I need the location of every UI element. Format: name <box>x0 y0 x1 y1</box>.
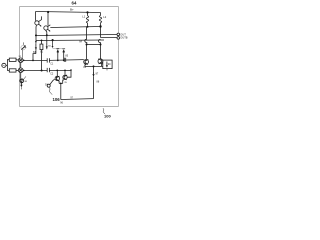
svg-text:64: 64 <box>72 1 77 6</box>
svg-text:OUTB: OUTB <box>120 36 127 40</box>
svg-text:106: 106 <box>53 97 61 102</box>
svg-text:100: 100 <box>104 113 111 118</box>
svg-text:B+: B+ <box>70 8 74 12</box>
